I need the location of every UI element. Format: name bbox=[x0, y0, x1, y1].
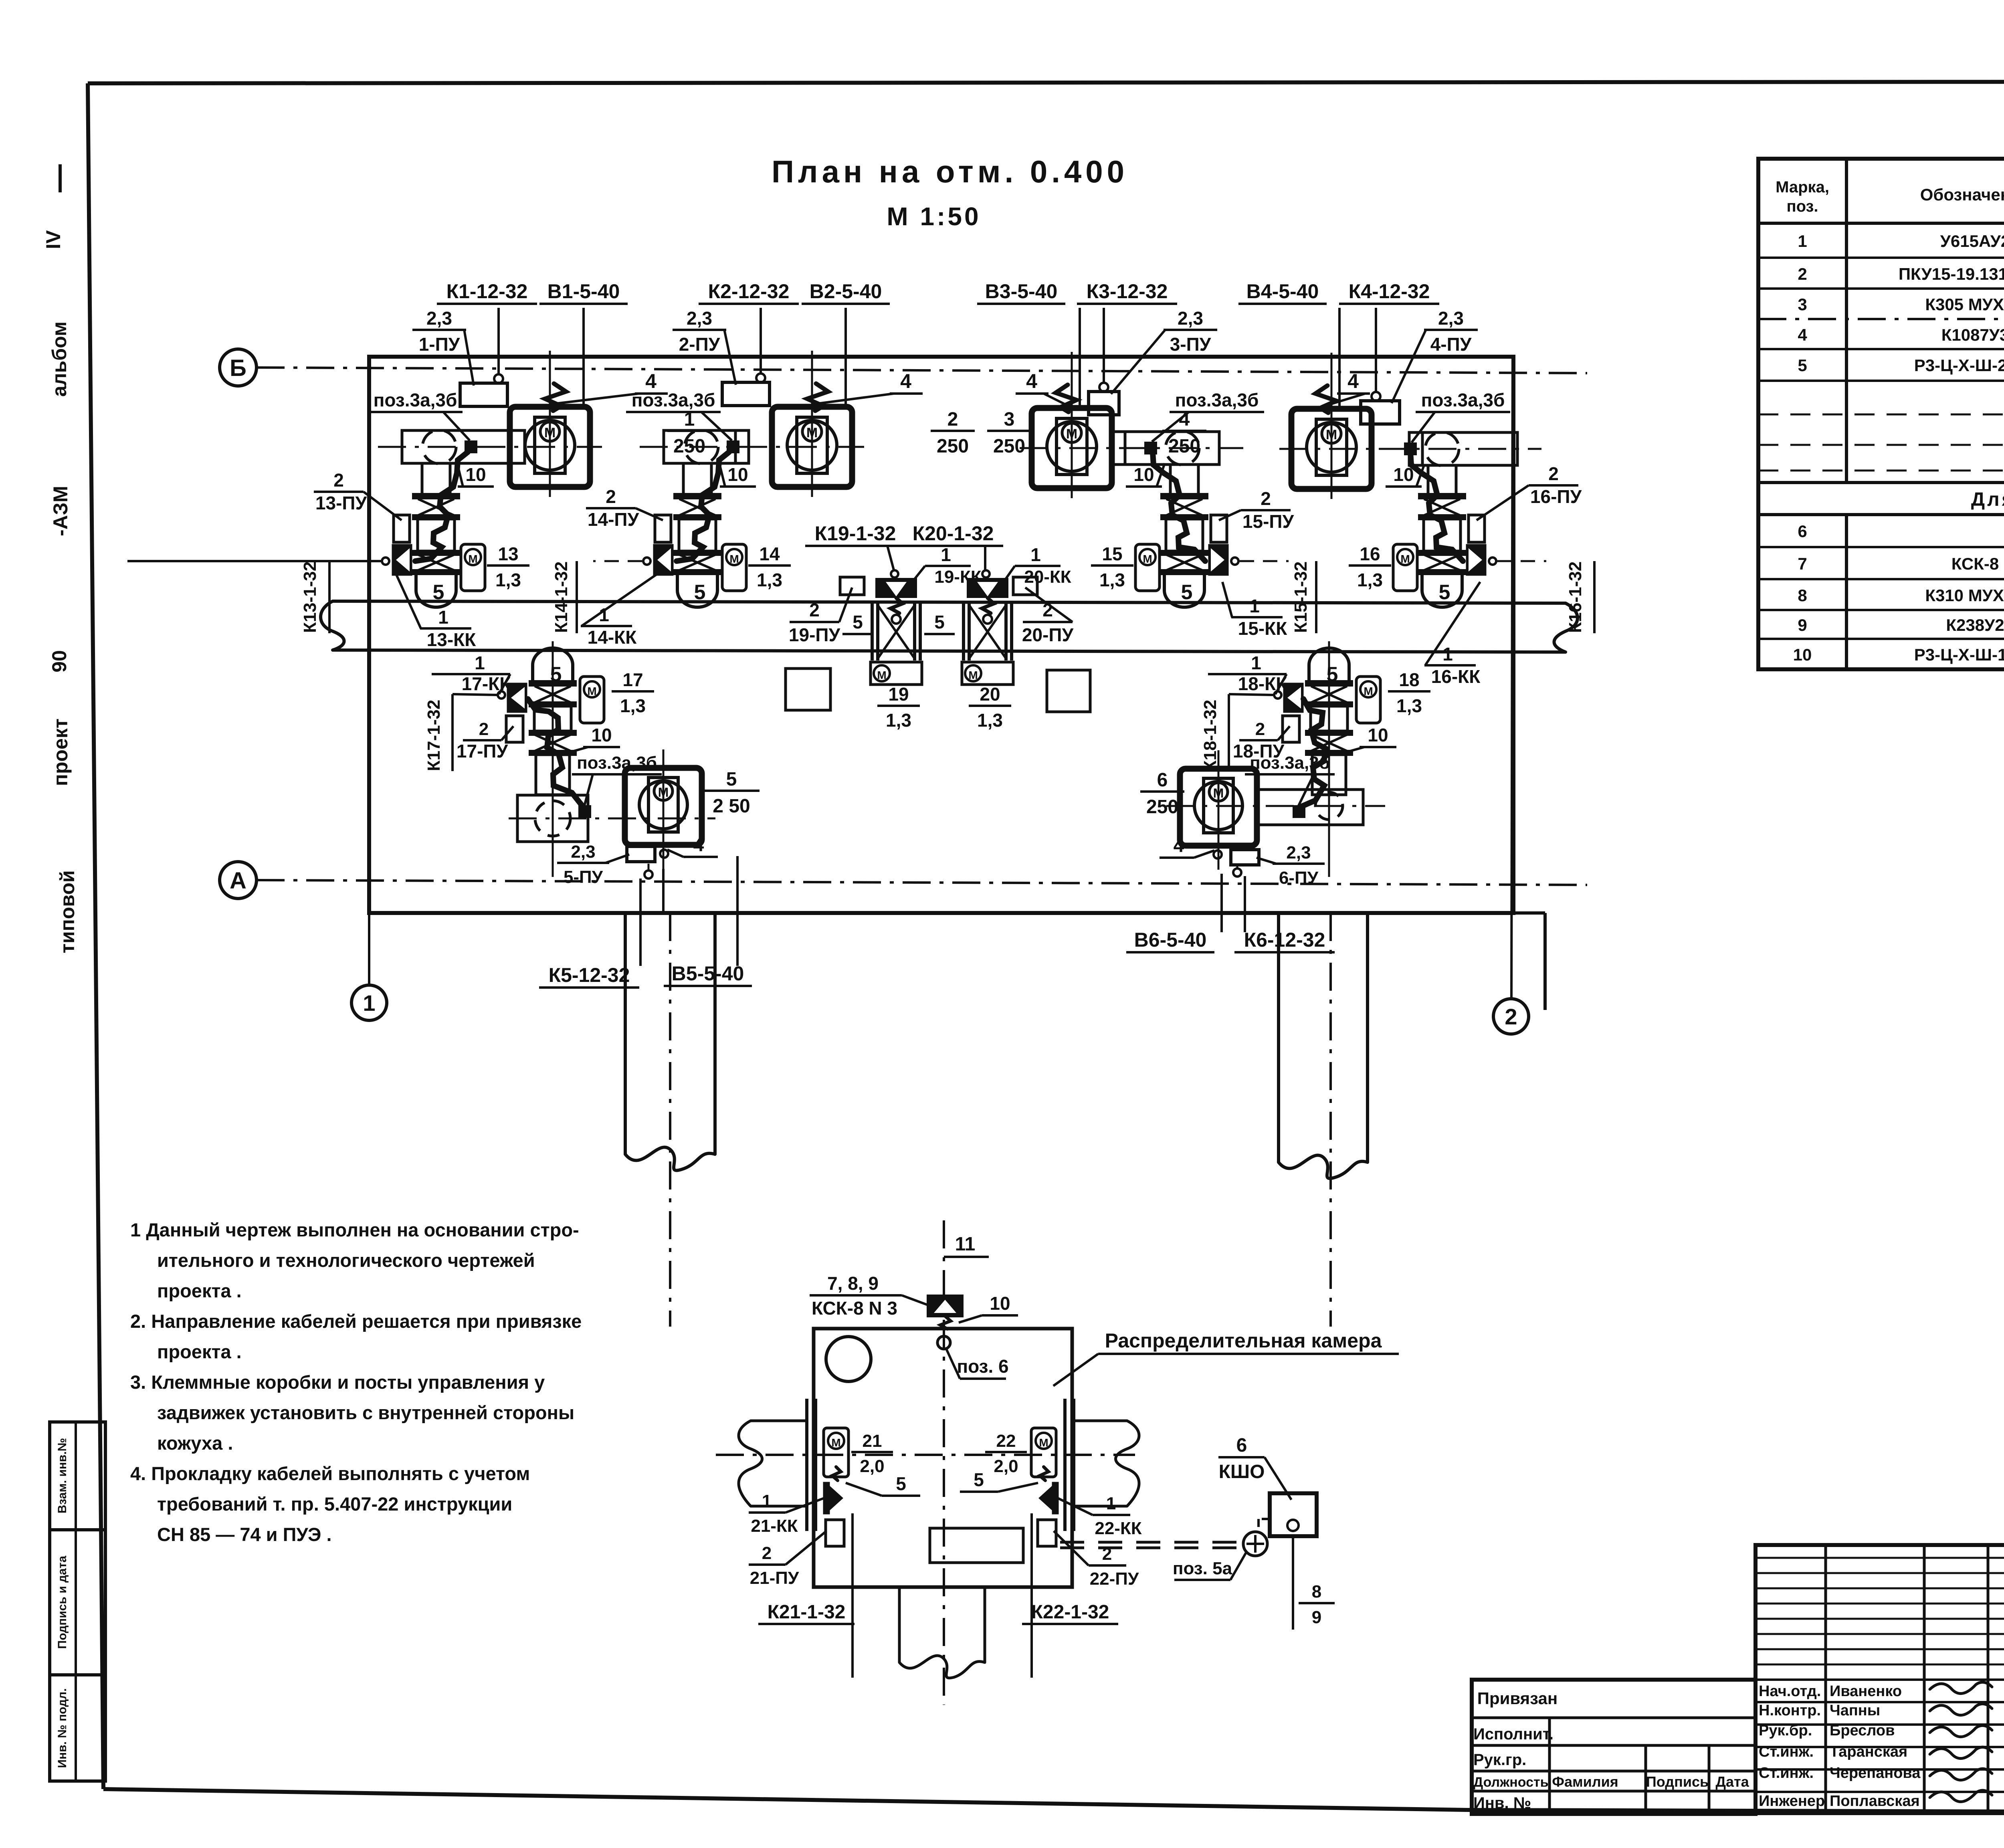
КШО drop line bbox=[1292, 1536, 1294, 1630]
pump unit 5 center lines bbox=[552, 641, 554, 877]
svg-text:IV: IV bbox=[42, 230, 65, 249]
cable drop line К pump 2 bbox=[760, 308, 762, 374]
svg-text:К1-12-32: К1-12-32 bbox=[446, 280, 528, 303]
svg-text:2: 2 bbox=[1798, 265, 1807, 283]
svg-text:М: М bbox=[1039, 1436, 1048, 1449]
chamber right flange bars bbox=[1063, 1399, 1067, 1531]
black valve 13 bbox=[393, 545, 411, 575]
cable squiggle 14 bbox=[677, 452, 729, 561]
valve assembly 13 column bbox=[413, 494, 459, 498]
pump unit 4 cable connector bbox=[1405, 444, 1416, 454]
pump unit 6 motor symbol bbox=[1209, 783, 1228, 801]
svg-text:Р3-Ц-Х-Ш-18У3: Р3-Ц-Х-Ш-18У3 bbox=[1914, 645, 2004, 664]
post box 6-ПУ bbox=[1231, 850, 1259, 865]
svg-text:1: 1 bbox=[941, 544, 951, 565]
svg-text:250: 250 bbox=[1168, 436, 1200, 457]
cable drop line В pump 3 bbox=[1079, 308, 1081, 407]
pump unit 1 inner rect bbox=[535, 417, 565, 473]
chamber center line vertical bbox=[943, 1220, 945, 1705]
chamber M-box left bbox=[824, 1428, 848, 1477]
pump unit 4 bold casing bbox=[1291, 409, 1372, 489]
post box circle 5 bbox=[644, 870, 653, 879]
svg-text:К19-1-32: К19-1-32 bbox=[815, 522, 896, 545]
pump unit 4 suction pump rect bbox=[1409, 432, 1517, 465]
svg-text:2: 2 bbox=[1505, 1004, 1517, 1029]
svg-text:10: 10 bbox=[465, 464, 486, 485]
svg-text:90: 90 bbox=[48, 650, 71, 673]
axis А dash-dot line bbox=[257, 880, 1587, 885]
svg-text:В1-5-40: В1-5-40 bbox=[547, 280, 620, 303]
svg-text:5: 5 bbox=[433, 581, 444, 604]
post box 4-ПУ bbox=[1361, 401, 1400, 424]
svg-text:250: 250 bbox=[937, 436, 969, 457]
pump unit 1 inlet cable zigzag bbox=[545, 384, 566, 411]
pump unit 1 center line vertical bbox=[549, 351, 551, 497]
leader dot 17 bbox=[498, 691, 505, 699]
gate valve 19 X body bbox=[878, 605, 915, 658]
svg-text:16: 16 bbox=[1360, 543, 1380, 564]
title block left extension Привязан bbox=[1472, 1680, 1756, 1814]
svg-text:поз. 6: поз. 6 bbox=[957, 1356, 1008, 1377]
svg-text:7, 8, 9: 7, 8, 9 bbox=[827, 1273, 879, 1294]
post rect 15-ПУ bbox=[1211, 515, 1227, 542]
pump unit 1 suction dashed circle bbox=[422, 430, 456, 464]
svg-text:1: 1 bbox=[363, 990, 375, 1016]
right standpipe walls bbox=[1277, 913, 1280, 1162]
cable drop line К5 bbox=[639, 879, 642, 966]
svg-text:поз. 5а: поз. 5а bbox=[1173, 1559, 1232, 1578]
svg-text:5: 5 bbox=[1798, 356, 1807, 375]
post box 1-ПУ bbox=[460, 383, 507, 406]
dashed cable to КШО bbox=[1060, 1541, 1240, 1544]
svg-text:2,0: 2,0 bbox=[994, 1456, 1018, 1476]
building bottom-right step bbox=[1513, 911, 1545, 915]
M-box 13 bbox=[461, 544, 485, 591]
table empty rows dashes bbox=[1758, 414, 2004, 416]
pump unit 1 bold casing bbox=[510, 407, 590, 487]
pump unit 6 impeller circle bbox=[1194, 782, 1242, 830]
svg-text:22: 22 bbox=[996, 1431, 1016, 1451]
svg-text:Фамилия: Фамилия bbox=[1552, 1773, 1618, 1790]
pump unit 1 impeller circle bbox=[525, 420, 575, 470]
chamber inner circle bbox=[826, 1337, 871, 1381]
svg-text:2: 2 bbox=[809, 600, 820, 620]
leader dot 14 bbox=[643, 557, 650, 565]
svg-text:Б: Б bbox=[230, 355, 246, 381]
svg-text:Р3-Ц-Х-Ш-22У3: Р3-Ц-Х-Ш-22У3 bbox=[1914, 356, 2004, 375]
pump unit 3 inlet cable zigzag bbox=[1056, 385, 1077, 412]
svg-text:2,3: 2,3 bbox=[571, 842, 595, 862]
svg-text:К305 МУХЛ2: К305 МУХЛ2 bbox=[1925, 295, 2004, 314]
svg-text:4-ПУ: 4-ПУ bbox=[1430, 334, 1472, 355]
valve assembly 16 column bbox=[1419, 494, 1465, 498]
post rect 17-ПУ bbox=[506, 716, 523, 742]
svg-text:14: 14 bbox=[759, 543, 780, 564]
svg-text:2: 2 bbox=[1255, 719, 1265, 739]
chamber bottom pipe bbox=[898, 1587, 901, 1662]
pump unit 2 cable connector bbox=[728, 442, 738, 452]
svg-text:2,3: 2,3 bbox=[1286, 843, 1311, 862]
svg-text:19: 19 bbox=[888, 684, 909, 705]
svg-text:21: 21 bbox=[863, 1431, 882, 1451]
chamber axis dash-dot bbox=[716, 1454, 1135, 1456]
svg-text:Обозначение: Обозначение bbox=[1920, 185, 2004, 204]
svg-text:10: 10 bbox=[1133, 464, 1154, 485]
svg-text:В5-5-40: В5-5-40 bbox=[672, 962, 744, 985]
gate valve 20 actuator black bowtie bbox=[967, 578, 1008, 598]
stamp box Инв. № подл. bbox=[50, 1675, 105, 1781]
leader dot 18 bbox=[1274, 691, 1281, 699]
svg-text:К15-1-32: К15-1-32 bbox=[1291, 561, 1311, 633]
svg-text:Распределительная камера: Распределительная камера bbox=[1105, 1329, 1382, 1352]
post box 3-ПУ bbox=[1089, 392, 1119, 415]
svg-text:М: М bbox=[968, 669, 978, 681]
svg-text:16-ПУ: 16-ПУ bbox=[1530, 486, 1582, 507]
pump unit 3 bold casing bbox=[1032, 408, 1112, 488]
svg-text:1,3: 1,3 bbox=[977, 710, 1003, 731]
chamber post rect left bbox=[826, 1520, 844, 1546]
svg-text:1: 1 bbox=[1249, 596, 1260, 616]
svg-text:поз.: поз. bbox=[1786, 198, 1818, 215]
pump unit 2 suction pump rect bbox=[664, 430, 749, 463]
pump unit 5 inner rect bbox=[648, 778, 678, 832]
valve assembly 16 neck bbox=[1427, 464, 1430, 494]
svg-text:Н.контр.: Н.контр. bbox=[1759, 1702, 1821, 1719]
svg-text:2,3: 2,3 bbox=[426, 308, 452, 329]
pump unit 3 axis dash-dot bbox=[1020, 447, 1243, 449]
gate valve 19 M-box bbox=[871, 662, 922, 685]
svg-text:М: М bbox=[877, 669, 886, 681]
svg-text:К13-1-32: К13-1-32 bbox=[300, 561, 320, 633]
svg-text:13: 13 bbox=[498, 543, 518, 564]
svg-text:2: 2 bbox=[947, 409, 958, 430]
gate valve 19 flange bars bbox=[871, 603, 874, 660]
chamber valve zigzag left bbox=[832, 1467, 841, 1480]
chamber left pipe bbox=[751, 1420, 806, 1422]
svg-text:1: 1 bbox=[762, 1491, 772, 1511]
svg-text:В4-5-40: В4-5-40 bbox=[1246, 280, 1319, 303]
svg-text:4: 4 bbox=[1174, 835, 1184, 856]
pump unit 3 suction pump rect bbox=[1112, 432, 1219, 465]
svg-text:2: 2 bbox=[479, 719, 489, 739]
svg-text:Марка,: Марка, bbox=[1776, 178, 1829, 196]
svg-text:4: 4 bbox=[1347, 370, 1359, 392]
svg-text:задвижек установить с вну: задвижек установить с внутренней стороны bbox=[157, 1402, 574, 1423]
svg-text:ПКУ15-19.131-54У2: ПКУ15-19.131-54У2 bbox=[1899, 265, 2004, 283]
KCK black box bbox=[928, 1296, 962, 1316]
svg-text:К21-1-32: К21-1-32 bbox=[768, 1602, 846, 1623]
post box circle 6 bbox=[1233, 868, 1241, 877]
svg-text:Для проекта КИП: Для проекта КИП bbox=[1971, 489, 2004, 510]
svg-text:КШО: КШО bbox=[1219, 1461, 1265, 1482]
cable drop line В pump 1 bbox=[582, 308, 585, 406]
page border frame bbox=[88, 81, 2004, 83]
black valve 15 bbox=[1209, 545, 1228, 575]
pump unit 3 motor symbol bbox=[1062, 423, 1081, 442]
svg-text:План на отм. 0.400: План на отм. 0.400 bbox=[772, 154, 1128, 189]
svg-text:5: 5 bbox=[694, 581, 706, 604]
svg-text:К2-12-32: К2-12-32 bbox=[708, 280, 790, 303]
svg-text:Нач.отд.: Нач.отд. bbox=[1759, 1683, 1821, 1700]
svg-text:М: М bbox=[831, 1436, 840, 1449]
cable squiggle 18 bbox=[1300, 699, 1326, 807]
svg-text:2: 2 bbox=[606, 486, 616, 507]
svg-text:1,3: 1,3 bbox=[757, 570, 782, 590]
pump unit 2 bold casing bbox=[772, 407, 852, 487]
svg-text:А: А bbox=[230, 868, 246, 894]
svg-text:1,3: 1,3 bbox=[886, 710, 911, 731]
svg-text:3-ПУ: 3-ПУ bbox=[1170, 334, 1212, 355]
svg-text:10: 10 bbox=[591, 725, 612, 745]
svg-text:2 50: 2 50 bbox=[713, 796, 750, 817]
svg-text:20: 20 bbox=[980, 684, 1000, 705]
pump unit 5 suction rect bbox=[517, 795, 588, 842]
gate valve 20 flange bars bbox=[962, 603, 965, 660]
svg-text:20-ПУ: 20-ПУ bbox=[1022, 624, 1074, 645]
chamber right pipe bbox=[1075, 1420, 1127, 1422]
cable drop line В5 bbox=[736, 856, 739, 966]
svg-text:Ст.инж.: Ст.инж. bbox=[1759, 1765, 1814, 1781]
svg-text:Подпись и дата: Подпись и дата bbox=[56, 1555, 69, 1649]
svg-text:1-ПУ: 1-ПУ bbox=[419, 334, 461, 355]
svg-text:К5-12-32: К5-12-32 bbox=[549, 964, 630, 986]
stamp box Подпись и дата bbox=[50, 1530, 105, 1675]
post rect 18-ПУ bbox=[1283, 716, 1299, 742]
svg-text:2,3: 2,3 bbox=[687, 308, 712, 329]
svg-text:3: 3 bbox=[1798, 295, 1807, 314]
pump unit 2 impeller circle bbox=[787, 420, 837, 470]
pump unit 4 inlet cable zigzag bbox=[1315, 386, 1336, 413]
post box 5-ПУ bbox=[627, 846, 655, 862]
signatures scribbles bbox=[1930, 1682, 1992, 1693]
svg-text:15: 15 bbox=[1102, 543, 1122, 564]
axis Б circle bbox=[220, 349, 257, 386]
svg-text:Инв. № подл.: Инв. № подл. bbox=[56, 1688, 69, 1768]
chamber black valve left bbox=[826, 1483, 843, 1513]
small mark top left margin bbox=[59, 164, 62, 192]
svg-text:10: 10 bbox=[727, 464, 748, 485]
svg-text:4: 4 bbox=[1026, 370, 1037, 392]
svg-text:Дата: Дата bbox=[1715, 1773, 1749, 1790]
title block names rows bbox=[1756, 1678, 2004, 1681]
chamber left flange bars bbox=[805, 1399, 808, 1531]
black valve 16 bbox=[1467, 545, 1485, 575]
svg-text:22-КК: 22-КК bbox=[1095, 1519, 1141, 1538]
svg-text:1 Данный чертеж выполнен н: 1 Данный чертеж выполнен на основании ст… bbox=[130, 1219, 579, 1240]
svg-text:1: 1 bbox=[1798, 232, 1807, 250]
svg-text:Подпись: Подпись bbox=[1646, 1773, 1709, 1790]
svg-text:3. Клеммные коробки и: 3. Клеммные коробки и посты управления у bbox=[130, 1371, 545, 1393]
svg-text:2. Направление кабелей ре: 2. Направление кабелей решается при прив… bbox=[130, 1311, 582, 1332]
svg-text:4: 4 bbox=[693, 834, 704, 856]
cable drop line К6 bbox=[1244, 876, 1246, 932]
valve assembly 15 column bbox=[1162, 494, 1207, 498]
black valve 14 bbox=[654, 545, 673, 575]
post rect 16-ПУ bbox=[1469, 515, 1485, 542]
table column lines bbox=[1845, 159, 1848, 483]
axis 2 line bbox=[1511, 357, 1513, 999]
svg-text:Взам. инв.№: Взам. инв.№ bbox=[56, 1438, 69, 1514]
cable drop line В6 bbox=[1220, 874, 1223, 932]
pipe break hook right bbox=[1554, 603, 1578, 652]
axis 1 circle bbox=[352, 985, 387, 1020]
svg-text:7: 7 bbox=[1798, 554, 1807, 573]
gate valve 19 stem zigzag bbox=[891, 598, 903, 613]
pump unit 5 bold casing bbox=[625, 768, 702, 845]
post rect gate 19 bbox=[840, 577, 864, 595]
gate valve 20 stem zigzag bbox=[982, 598, 994, 613]
svg-text:21-ПУ: 21-ПУ bbox=[750, 1568, 799, 1588]
svg-text:2,3: 2,3 bbox=[1438, 308, 1464, 329]
svg-text:Бреслов: Бреслов bbox=[1830, 1722, 1895, 1739]
right standpipe centerline bbox=[1329, 913, 1332, 1327]
svg-text:поз.3а,3б: поз.3а,3б bbox=[632, 390, 715, 410]
svg-text:5: 5 bbox=[1181, 581, 1193, 604]
svg-text:Таранская: Таранская bbox=[1830, 1743, 1907, 1760]
cable lines below pump 6 bbox=[1236, 866, 1238, 868]
chamber M-box right bbox=[1031, 1428, 1056, 1477]
svg-text:4: 4 bbox=[1179, 409, 1190, 430]
svg-text:9: 9 bbox=[1312, 1608, 1321, 1627]
svg-text:1,3: 1,3 bbox=[1396, 695, 1422, 716]
svg-text:Рук.бр.: Рук.бр. bbox=[1759, 1722, 1812, 1739]
cable drop line К pump 1 bbox=[497, 308, 500, 374]
pump unit 6 cable connector bbox=[1294, 806, 1304, 817]
M-box 18 bbox=[1356, 677, 1380, 723]
КШО dash-dot up bbox=[1259, 1518, 1270, 1520]
left standpipe centerline bbox=[669, 913, 671, 1327]
svg-text:К16-1-32: К16-1-32 bbox=[1566, 561, 1585, 633]
pump unit 3 suction dashed circle bbox=[1166, 431, 1199, 465]
svg-text:4. Прокладку кабелей вып: 4. Прокладку кабелей выполнять с учетом bbox=[130, 1463, 530, 1484]
svg-text:6-ПУ: 6-ПУ bbox=[1279, 868, 1319, 888]
svg-text:17-ПУ: 17-ПУ bbox=[457, 741, 509, 761]
valve assembly 17 column above pump 5 bbox=[533, 648, 573, 681]
long leader line to valve 13 bbox=[127, 560, 382, 562]
svg-text:1: 1 bbox=[1251, 652, 1261, 673]
M-box 15 bbox=[1135, 544, 1160, 591]
svg-text:К22-1-32: К22-1-32 bbox=[1031, 1602, 1109, 1623]
pump unit 3 cable connector bbox=[1145, 443, 1156, 453]
equipment table outer bbox=[1758, 159, 2004, 669]
svg-text:К14-1-32: К14-1-32 bbox=[552, 561, 571, 633]
svg-text:Инв. №: Инв. № bbox=[1473, 1794, 1531, 1812]
svg-text:Должность: Должность bbox=[1473, 1775, 1549, 1790]
svg-text:М: М bbox=[468, 553, 477, 565]
svg-text:6: 6 bbox=[1236, 1435, 1247, 1456]
svg-text:2: 2 bbox=[1548, 463, 1559, 484]
svg-text:1: 1 bbox=[475, 652, 485, 673]
svg-text:2: 2 bbox=[333, 470, 344, 491]
svg-text:поз.3а,3б: поз.3а,3б bbox=[1421, 390, 1505, 410]
svg-text:-АЗМ: -АЗМ bbox=[49, 486, 72, 536]
svg-text:ительного и технологического: ительного и технологического чертежей bbox=[157, 1250, 535, 1271]
svg-text:Ст.инж.: Ст.инж. bbox=[1759, 1743, 1814, 1760]
stamp box Взам. инв. № bbox=[50, 1422, 105, 1530]
axis Б dash-dot line bbox=[257, 368, 1587, 373]
pump unit 6 suction dashed circle bbox=[1315, 792, 1343, 820]
svg-text:18: 18 bbox=[1399, 669, 1419, 690]
pipe break hook left bbox=[321, 601, 344, 650]
svg-text:Инженер: Инженер bbox=[1759, 1793, 1825, 1810]
svg-text:2-ПУ: 2-ПУ bbox=[679, 334, 721, 355]
svg-text:1: 1 bbox=[1106, 1494, 1116, 1513]
svg-text:15-ПУ: 15-ПУ bbox=[1242, 511, 1295, 532]
svg-text:19-ПУ: 19-ПУ bbox=[789, 624, 841, 645]
pump unit 6 bold casing bbox=[1180, 769, 1257, 846]
floor square left of gates bbox=[786, 669, 830, 710]
left standpipe walls bbox=[624, 913, 627, 1154]
axis 2 circle bbox=[1493, 999, 1529, 1034]
svg-text:10: 10 bbox=[1793, 645, 1812, 664]
pump unit 5 cable connector bbox=[580, 806, 590, 817]
svg-text:13-КК: 13-КК bbox=[427, 629, 477, 650]
svg-text:Исполнит.: Исполнит. bbox=[1473, 1725, 1554, 1743]
svg-text:Черепанова: Черепанова bbox=[1830, 1765, 1921, 1781]
pump unit 1 motor symbol bbox=[540, 422, 560, 441]
gate valve 19 actuator black bowtie bbox=[875, 578, 917, 598]
svg-text:250: 250 bbox=[1146, 796, 1178, 818]
leader dot 16 bbox=[1489, 557, 1496, 565]
cable squiggle 15 bbox=[1153, 452, 1205, 561]
svg-text:М: М bbox=[729, 553, 739, 565]
pump unit 5 motor symbol bbox=[654, 782, 673, 800]
svg-text:проекта .: проекта . bbox=[157, 1341, 242, 1362]
M-box 14 bbox=[722, 544, 746, 591]
svg-text:10: 10 bbox=[990, 1293, 1010, 1314]
chamber black valve right bbox=[1038, 1483, 1055, 1513]
svg-text:3: 3 bbox=[1004, 409, 1015, 430]
svg-text:К1087У3: К1087У3 bbox=[1941, 325, 2004, 344]
pump unit 1 cable connector bbox=[466, 442, 476, 452]
svg-text:17: 17 bbox=[622, 669, 643, 690]
svg-text:К17-1-32: К17-1-32 bbox=[424, 700, 444, 772]
right standpipe break curve bbox=[1279, 1155, 1368, 1178]
chamber inner pump rect bbox=[930, 1528, 1023, 1563]
svg-text:К4-12-32: К4-12-32 bbox=[1349, 280, 1430, 303]
svg-text:5: 5 bbox=[726, 769, 737, 790]
svg-text:М 1:50: М 1:50 bbox=[887, 202, 981, 231]
cable drop line В pump 2 bbox=[844, 308, 847, 406]
pump unit 2 motor symbol bbox=[802, 422, 822, 441]
pump unit 2 axis dash-dot bbox=[640, 446, 864, 448]
table header row bbox=[1758, 222, 2004, 225]
svg-text:5: 5 bbox=[1439, 581, 1450, 604]
svg-text:поз.3а,3б: поз.3а,3б bbox=[374, 390, 457, 410]
svg-text:8: 8 bbox=[1798, 586, 1807, 605]
cable drop line К pump 4 bbox=[1375, 308, 1377, 392]
title block names column lines bbox=[1824, 1545, 1827, 1814]
pump unit 3 impeller circle bbox=[1047, 422, 1097, 471]
svg-text:К310 МУХЛ2: К310 МУХЛ2 bbox=[1925, 586, 2004, 605]
svg-text:Чапны: Чапны bbox=[1830, 1702, 1880, 1719]
svg-text:М: М bbox=[1364, 685, 1373, 697]
svg-text:проекта .: проекта . bbox=[157, 1280, 242, 1301]
pump unit 2 inner rect bbox=[797, 417, 827, 473]
svg-text:22-ПУ: 22-ПУ bbox=[1090, 1569, 1139, 1589]
valve assembly 15 neck bbox=[1169, 464, 1172, 494]
post box 2-ПУ bbox=[722, 382, 770, 406]
pump unit 3 center line vertical bbox=[1071, 352, 1073, 498]
left standpipe break curve bbox=[625, 1147, 715, 1170]
svg-text:М: М bbox=[1400, 553, 1410, 565]
svg-text:4: 4 bbox=[1798, 325, 1807, 344]
svg-text:требований т. пр. 5.407-: требований т. пр. 5.407-22 инструкции bbox=[157, 1493, 512, 1515]
svg-text:типовой: типовой bbox=[56, 870, 79, 953]
svg-text:2,0: 2,0 bbox=[860, 1456, 884, 1476]
leader dot 13 bbox=[382, 557, 389, 565]
pump unit 4 inner rect bbox=[1316, 419, 1347, 475]
